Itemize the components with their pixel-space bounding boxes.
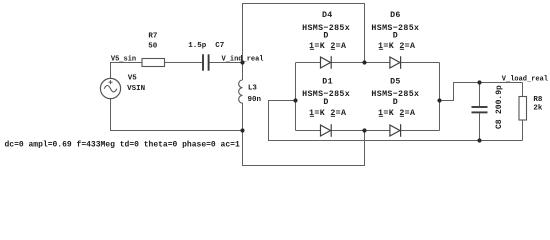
resistor R7: [142, 59, 165, 67]
node D4/D6 junction: [362, 60, 366, 64]
svg-text:D: D: [323, 98, 328, 107]
wire bottom diode row segments: [296, 130, 321, 132]
wire V_ind_real to L3 top: [242, 63, 244, 81]
svg-text:200.9p: 200.9p: [495, 85, 504, 114]
label D1: [302, 78, 350, 118]
svg-text:D6: D6: [390, 11, 401, 20]
wire C7 to V_ind_real node: [210, 62, 243, 64]
voltage source V5: [100, 78, 120, 98]
svg-text:D: D: [393, 32, 398, 41]
wire top loop: V_ind_real up, across, down to D4/D6 junction: [243, 4, 365, 63]
svg-text:D4: D4: [322, 11, 333, 20]
svg-text:1=K 2=A: 1=K 2=A: [309, 109, 346, 118]
pin underlines D5: [379, 115, 404, 117]
resistor R8: [519, 97, 527, 121]
capacitor C7: [203, 54, 209, 70]
wire middle box right side: [439, 63, 441, 131]
svg-text:1=K 2=A: 1=K 2=A: [378, 42, 415, 51]
svg-text:VSIN: VSIN: [127, 85, 145, 93]
pin underlines D1: [310, 115, 335, 117]
wire R8 top lead: [522, 83, 524, 97]
svg-text:1.5p: 1.5p: [188, 42, 207, 50]
diode D5: [390, 124, 401, 137]
wire V5_sin: source top to R7: [111, 63, 143, 79]
pin underlines D4: [310, 48, 335, 50]
node box right mid: [437, 98, 441, 102]
diode D1: [321, 124, 332, 137]
node C8 bottom: [477, 138, 481, 142]
node V_load_real / C8 top: [477, 80, 481, 84]
svg-text:1=K 2=A: 1=K 2=A: [378, 109, 415, 118]
node source ground rail: [240, 128, 244, 132]
diode D4: [321, 56, 332, 69]
svg-text:C7: C7: [215, 42, 224, 50]
wire R7 to C7: [165, 62, 203, 64]
svg-text:R8: R8: [533, 96, 543, 104]
wire middle box left side: [295, 63, 297, 131]
wire source bottom rail: [111, 99, 243, 131]
svg-text:V_ind_real: V_ind_real: [222, 55, 264, 63]
pin underlines D6: [379, 48, 404, 50]
capacitor C8: [472, 107, 488, 112]
svg-text:D5: D5: [390, 78, 401, 87]
svg-text:L3: L3: [248, 84, 258, 92]
svg-text:D: D: [393, 98, 398, 107]
junction dots: [240, 60, 481, 142]
svg-text:R7: R7: [148, 33, 157, 41]
svg-text:V5_sin: V5_sin: [111, 55, 136, 63]
svg-text:C8: C8: [495, 119, 504, 129]
svg-text:D: D: [323, 32, 328, 41]
label D6: [371, 11, 419, 51]
node V_ind_real: [240, 60, 244, 64]
label D4: [302, 11, 350, 51]
label D5: [371, 78, 419, 118]
diode D6: [390, 56, 401, 69]
inductor L3: [239, 80, 243, 103]
svg-text:1=K 2=A: 1=K 2=A: [309, 42, 346, 51]
svg-text:dc=0 ampl=0.69 f=433Meg td=0 t: dc=0 ampl=0.69 f=433Meg td=0 theta=0 pha…: [5, 141, 240, 150]
wire top diode row segments: [296, 62, 321, 64]
wire R8 bottom lead: [522, 120, 524, 141]
wire ground rail down-right-up to D1/D5 junction: [243, 131, 365, 166]
wire C8 bottom lead: [479, 113, 481, 140]
node D1/D5 junction: [362, 128, 366, 132]
svg-text:D1: D1: [322, 78, 333, 87]
svg-text:V5: V5: [128, 74, 138, 82]
node box left mid: [293, 98, 297, 102]
svg-text:2k: 2k: [533, 105, 543, 113]
svg-text:90n: 90n: [248, 96, 262, 104]
svg-text:V_load_real: V_load_real: [502, 76, 548, 84]
wire C8 top lead: [479, 83, 481, 107]
wire left-mid tap to lower output rail: [269, 101, 523, 141]
wire right-mid tap step up to output rail: [440, 83, 523, 101]
wire L3 bottom to ground rail: [242, 103, 244, 131]
svg-text:50: 50: [148, 42, 158, 50]
